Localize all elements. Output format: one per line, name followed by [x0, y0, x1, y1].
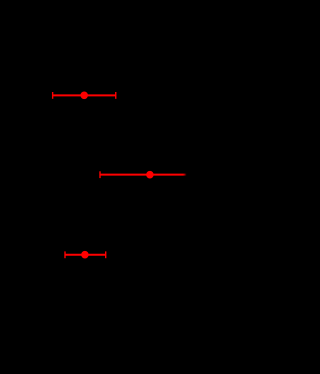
error bar 2 left cap [99, 171, 101, 178]
error bar 1 horizontal CI line [53, 94, 116, 96]
error bar 2 marker dot [146, 171, 154, 179]
error bar 3 right cap [105, 251, 107, 258]
error bar 1 left cap [52, 92, 54, 99]
error bar 3 marker dot [81, 251, 89, 259]
error bar 2 line end fade (clipped at axis edge) [184, 174, 187, 176]
error bar 1 marker dot [80, 92, 88, 100]
error bar 3 left cap [64, 251, 66, 258]
error bar 1 right cap [115, 92, 117, 99]
error bar 3 horizontal CI line [65, 254, 106, 256]
